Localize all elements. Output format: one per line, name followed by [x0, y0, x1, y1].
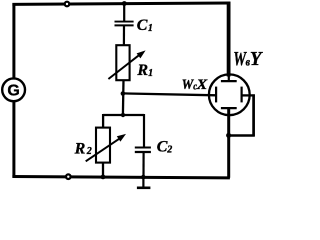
wire: R2 top lead — [102, 114, 104, 128]
wire: mid node to X-plate of CRT — [123, 93, 216, 95]
svg-text:2: 2 — [166, 144, 172, 155]
node: open terminal on bottom bus — [66, 174, 71, 179]
generator G — [2, 78, 25, 101]
wire: loop horizontal segment — [229, 134, 255, 137]
svg-text:X: X — [196, 77, 209, 93]
label WcX (X-plates input) — [182, 77, 209, 93]
wire: C1 to R1 lead — [123, 26, 125, 46]
capacitor C1 — [115, 17, 153, 34]
ground — [137, 177, 151, 188]
svg-text:1: 1 — [148, 23, 153, 34]
junction: mid node (R1 / X-plate wire) — [121, 91, 126, 96]
wire: R2 bottom lead — [102, 162, 104, 177]
wire: C2 top lead — [143, 114, 145, 147]
node: open terminal on top bus — [65, 2, 70, 7]
junction: top bus / C1 branch — [122, 1, 127, 6]
capacitor C2 — [135, 139, 173, 156]
wire: left vertical from top bus to bottom bus — [12, 3, 15, 177]
wire: bottom horizontal bus — [12, 177, 230, 178]
wire: top horizontal bus — [12, 3, 230, 4]
junction: R2/C2 segment center — [121, 113, 125, 117]
wire: R2/C2 top connecting segment — [103, 114, 144, 116]
svg-text:G: G — [7, 83, 19, 100]
junction: C2 / bottom bus / ground — [141, 175, 146, 180]
wire: C1 top lead — [123, 3, 125, 21]
label WвY (Y-plates input) — [233, 48, 263, 70]
svg-text:2: 2 — [86, 146, 92, 157]
CRT tube V1 (oscilloscope deflection system, end view) — [209, 74, 250, 115]
svg-text:R: R — [136, 62, 148, 79]
junction: CRT bottom lead / loop — [226, 133, 231, 138]
wire: R1 bottom lead down through mid node — [122, 80, 125, 116]
resistor R2 (variable) — [74, 128, 126, 163]
svg-text:R: R — [74, 140, 86, 157]
CRT deflection plates — [216, 81, 242, 108]
svg-text:1: 1 — [148, 68, 153, 79]
svg-text:Y: Y — [250, 48, 263, 70]
junction: R2 / bottom bus — [101, 175, 106, 180]
svg-text:C: C — [137, 17, 148, 34]
wire: CRT bottom lead to bottom bus — [227, 108, 230, 178]
wire: right vertical thick lead to Y-plate — [227, 2, 231, 82]
resistor R1 (variable) — [108, 45, 153, 80]
svg-text:C: C — [157, 139, 168, 156]
wire: right X-plate lead — [242, 94, 255, 96]
wire: loop vertical segment — [252, 94, 255, 136]
wire: C2 bottom lead — [142, 152, 144, 177]
